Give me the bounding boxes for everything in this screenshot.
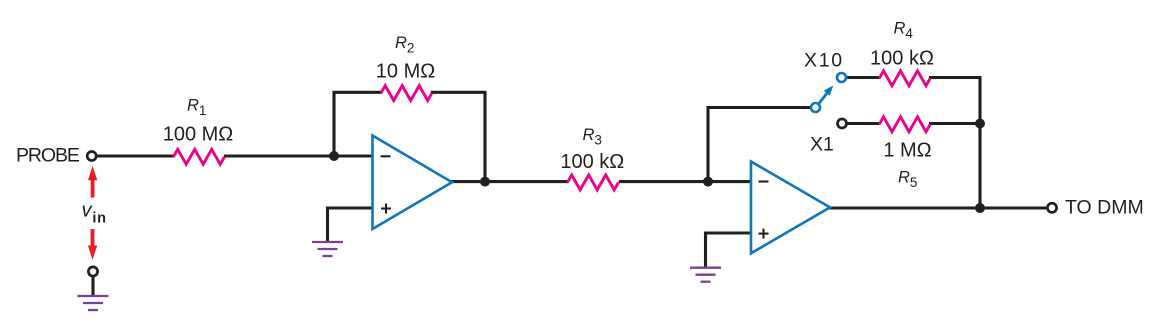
svg-text:R1: R1 xyxy=(187,97,206,119)
svg-text:R3: R3 xyxy=(583,126,602,148)
svg-text:TO DMM: TO DMM xyxy=(1065,196,1144,218)
svg-text:1 MΩ: 1 MΩ xyxy=(883,140,931,162)
svg-text:100 kΩ: 100 kΩ xyxy=(870,47,934,69)
svg-text:vin: vin xyxy=(82,200,107,227)
svg-text:R2: R2 xyxy=(395,34,414,56)
svg-text:X10: X10 xyxy=(804,49,844,71)
svg-text:100 MΩ: 100 MΩ xyxy=(163,123,234,145)
svg-text:R4: R4 xyxy=(894,20,914,42)
svg-text:PROBE: PROBE xyxy=(16,144,80,166)
svg-text:X1: X1 xyxy=(810,133,834,155)
svg-text:10 MΩ: 10 MΩ xyxy=(376,61,435,83)
svg-text:100 kΩ: 100 kΩ xyxy=(560,151,624,173)
svg-text:R5: R5 xyxy=(898,169,917,191)
